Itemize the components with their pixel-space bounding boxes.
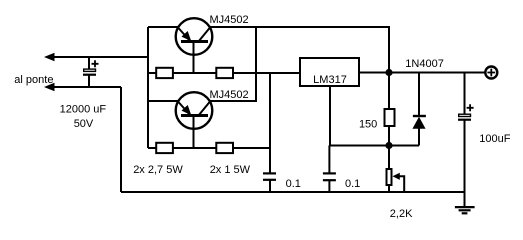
diode D1 1N4007 (412, 73, 426, 146)
node: adj junction (385, 142, 392, 149)
wire: Q1 base lead (193, 43, 195, 73)
node: output junction (385, 69, 392, 76)
svg-text:150: 150 (359, 118, 377, 130)
wire: LM317 output to node (359, 72, 389, 74)
wire: Q2 emitter wire (148, 100, 179, 102)
resistor R4 1 5W (216, 143, 233, 153)
wire: row 1 (LM317 input) (148, 72, 299, 74)
wire: ground rail (121, 191, 465, 193)
wire: Q2 base lead (193, 117, 195, 148)
potentiometer R6 2,2K (387, 146, 405, 193)
svg-text:1N4007: 1N4007 (405, 58, 444, 70)
terminal: output + (485, 67, 497, 79)
svg-text:12000 uF: 12000 uF (60, 104, 107, 116)
wire: output node to terminal (389, 72, 485, 74)
capacitor C1 12000uF 50V (83, 57, 99, 87)
svg-text:2x 1 5W: 2x 1 5W (210, 164, 251, 176)
ground (455, 192, 475, 213)
resistor R5 150 (385, 73, 395, 146)
wire: row2/input node down to C2 (269, 73, 271, 174)
label 2x 1 5W (210, 164, 251, 176)
resistor R2 1 5W (216, 68, 233, 78)
arrow: al ponte (-) (44, 83, 121, 91)
svg-text:0.1: 0.1 (345, 178, 360, 190)
svg-text:MJ4502: MJ4502 (210, 14, 249, 26)
wire: row 2 (148, 147, 270, 149)
label Q1 MJ4502 (210, 14, 249, 26)
label 150 (359, 118, 377, 130)
svg-text:0.1: 0.1 (286, 178, 301, 190)
svg-text:2,2K: 2,2K (390, 208, 413, 220)
capacitor C3 0.1 (323, 146, 336, 193)
label 1N4007 (405, 58, 444, 70)
arrow: al ponte (+) (44, 53, 148, 61)
wire: Q2 collector up to top rail (209, 27, 256, 101)
label al ponte (14, 74, 53, 86)
transistor Q1 MJ4502 (176, 18, 213, 55)
label 100uF (479, 133, 510, 145)
label 2,2K (390, 208, 413, 220)
resistor R3 2,7 5W (156, 143, 173, 153)
resistor R1 2,7 5W (156, 68, 173, 78)
svg-text:50V: 50V (74, 118, 94, 130)
label 50V (74, 118, 94, 130)
svg-text:100uF: 100uF (479, 133, 510, 145)
svg-text:LM317: LM317 (313, 74, 347, 86)
wire: left rail (input +) (147, 27, 149, 148)
wire: negative return down to ground rail (120, 87, 122, 192)
svg-text:al ponte: al ponte (14, 74, 53, 86)
label 0.1 (C2) (286, 178, 301, 190)
capacitor C4 100uF (458, 73, 474, 193)
wire: LM317 adj pin and adj net (330, 87, 419, 146)
IC U1 LM317 (300, 58, 359, 86)
transistor Q2 MJ4502 (176, 92, 213, 129)
label 2x 2,7 5W (133, 164, 183, 176)
wire: Q1 emitter wire (148, 26, 179, 28)
svg-text:MJ4502: MJ4502 (210, 89, 249, 101)
label Q2 MJ4502 (210, 89, 249, 101)
svg-text:2x 2,7 5W: 2x 2,7 5W (133, 164, 183, 176)
label 12000 uF (60, 104, 107, 116)
wire: Q1 collector / top rail to output node (209, 27, 389, 73)
label 0.1 (C3) (345, 178, 360, 190)
capacitor C2 0.1 (263, 173, 276, 192)
